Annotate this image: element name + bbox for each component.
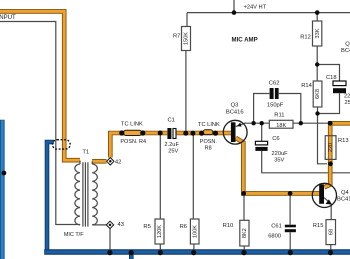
svg-text:18K: 18K [276,123,286,129]
wire orange R13 branch to right edge and down to Q4 collector [324,123,350,187]
svg-text:120K: 120K [157,225,163,238]
label R10 [223,223,234,229]
wire R12 bottom to C18 and R14 junction [317,46,339,81]
label R15 [313,223,324,229]
label R5 [143,224,150,230]
svg-text:25V: 25V [345,100,350,106]
label 43 [118,222,124,228]
label C1 value [164,142,179,154]
wire C62 branch across R11 [254,94,301,124]
wire C6 top lead [261,123,263,141]
svg-text:BC416: BC416 [226,109,244,115]
svg-text:R6: R6 [180,224,187,230]
label R13 [338,138,349,144]
transformer T1 [75,161,97,227]
capacitor C1 [167,128,176,139]
junction dots top rail [232,10,320,15]
svg-text:25V: 25V [168,148,178,154]
wire C18 bottom to R14 bottom junction [318,93,340,113]
junction dots R12 R14 C18 node [315,62,333,166]
wire Q4 emitter to R15 [324,198,331,251]
label TC LINK (R8) [198,122,220,128]
svg-text:INPUT: INPUT [0,14,16,21]
resistor R6 [190,219,199,244]
wire C6 bottom lead running to right edge [262,151,350,173]
label T1 [82,150,89,156]
svg-text:Q3: Q3 [231,103,239,109]
label POSN. R8 [200,139,218,151]
wire orange C1 to Q3 base [177,131,231,136]
svg-text:150K: 150K [184,32,190,45]
label INPUT [0,14,16,21]
svg-text:33K: 33K [315,28,321,38]
svg-text:C61: C61 [271,223,282,229]
wire R10 leads [243,196,245,252]
label MIC AMP [232,36,258,43]
label MIC T/F [64,232,84,238]
capacitor C18 [333,81,346,93]
cable entry marker dashed ellipse [52,140,70,149]
wire input return line from left edge down to T1 primary bottom [0,22,80,225]
label C62 [269,80,280,86]
svg-text:R5: R5 [143,224,150,230]
svg-text:BC41: BC41 [341,48,350,54]
junction dots R11 rail [251,121,332,126]
svg-text:POSN. R4: POSN. R4 [120,139,146,145]
svg-text:C6: C6 [272,136,279,142]
label +24V HT [244,5,267,11]
label C62 value [267,103,284,109]
resistor R13 [325,136,336,160]
svg-text:R13: R13 [338,138,349,144]
svg-text:R11: R11 [274,112,284,118]
junction dots Q3 collector line [241,191,292,196]
label Q3 [226,103,244,116]
svg-text:R10: R10 [223,223,234,229]
wire R14 bottom lead down to R13 bottom node [318,107,328,164]
resistor R15 [326,220,336,245]
wire R6 leads [192,134,195,251]
label R7 [173,33,180,39]
transistor Q4 [312,183,336,207]
label C61 [271,223,282,229]
svg-text:68: 68 [328,229,334,235]
svg-text:43: 43 [118,222,124,228]
wire feed from top edge to +24V rail [233,0,235,13]
resistor R11 [269,120,293,129]
label C6 [272,136,279,142]
svg-text:35V: 35V [274,157,284,163]
svg-text:2.2uF: 2.2uF [164,142,179,148]
label C1 [168,117,175,123]
label C18 value [344,93,350,106]
junction dot left screen wire [2,171,7,176]
svg-text:R15: R15 [313,223,324,229]
resistor R12 [313,21,322,46]
resistor R14 [313,81,322,107]
link POSN R4 [123,130,141,135]
svg-text:220uF: 220uF [272,151,289,157]
label R12 [300,34,311,40]
svg-text:+24V HT: +24V HT [244,5,267,11]
capacitor C62 [270,88,279,99]
svg-text:42: 42 [115,159,121,165]
label Q2 fragment at right edge [341,42,350,54]
label POSN. R4 [120,139,146,145]
capacitor C61 [285,225,296,233]
label TC LINK (R4) [121,122,143,128]
label C61 value [268,233,281,239]
junction dots mic line [119,130,218,135]
wire blue screen at left edge [0,120,5,259]
svg-text:6800: 6800 [268,233,281,239]
svg-text:Q2: Q2 [345,42,350,48]
svg-text:C18: C18 [326,75,337,81]
resistor R7 [182,27,191,51]
label R14 [301,83,312,89]
transistor Q3 [223,120,247,144]
wire Q3 emitter to R11 rail [236,123,330,127]
svg-text:Q4: Q4 [341,190,350,196]
label Q4 [337,190,350,203]
capacitor C6 [255,141,267,151]
resistor R10 [240,220,249,246]
svg-text:220: 220 [344,93,350,99]
label R6 [180,224,187,230]
node 43 diamond [106,221,113,228]
svg-text:MIC T/F: MIC T/F [64,232,84,238]
wire +24V HT rail [187,12,350,14]
svg-text:R12: R12 [300,34,311,40]
label 42 [115,159,121,165]
node 42 diamond [107,158,114,165]
svg-text:MIC AMP: MIC AMP [232,36,258,43]
link POSN R8 [203,130,213,135]
wire orange T1 secondary top to node 42 [92,159,106,164]
wire orange Q3 collector down and right to Q4 base [236,138,320,194]
svg-text:C1: C1 [168,117,175,123]
label C18 [326,75,337,81]
wire orange input hot from left edge to T1 primary top [0,11,80,160]
wire C61 leads [289,196,291,252]
junction dots ground rail [107,250,333,255]
svg-text:150pF: 150pF [267,103,284,109]
wire R7 top lead from rail [186,13,188,27]
svg-text:C62: C62 [269,80,280,86]
svg-text:BC41: BC41 [337,197,350,203]
svg-text:TC LINK: TC LINK [121,122,143,128]
svg-text:220: 220 [328,143,334,152]
wire R7 bottom lead to mic line [185,51,187,133]
wire blue ground rail [44,249,350,254]
wire R12 top lead [316,13,318,21]
label R11 [274,112,284,118]
wire blue screen from cable marker down to ground rail [47,142,54,252]
svg-text:6K8: 6K8 [315,89,321,99]
svg-text:R14: R14 [301,83,312,89]
svg-text:TC LINK: TC LINK [198,122,220,128]
wire node 43 leads [92,225,110,251]
wire orange node 42 up and right to C1 [110,133,167,158]
svg-text:T1: T1 [82,150,89,156]
svg-text:100K: 100K [192,225,198,238]
label C6 value [272,151,289,164]
svg-text:POSN.: POSN. [200,139,218,145]
svg-text:R7: R7 [173,33,180,39]
svg-text:R8: R8 [205,145,212,151]
wire R5 leads [159,134,161,251]
svg-text:8K2: 8K2 [242,228,248,238]
wire blue ground stub to bottom edge [129,252,134,259]
resistor R5 [155,219,164,244]
